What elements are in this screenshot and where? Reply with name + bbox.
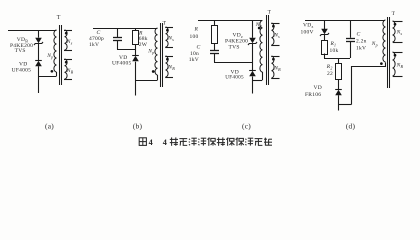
wire: (b) drain stub down <box>135 80 137 96</box>
capacitor C 4700p 1kV (b) <box>113 38 122 41</box>
caption glyph 钳 <box>217 137 225 145</box>
wire: (a) drain node to primary bottom <box>38 76 57 78</box>
transformer core (a) <box>60 25 62 85</box>
wire: (c) TVS to VD <box>252 44 254 71</box>
polarity dot (d) primary <box>380 62 383 65</box>
wire: (b) top rail <box>93 28 158 30</box>
diode VD UF4005 (b) <box>132 56 139 62</box>
resistor R1 10k (d) <box>322 41 328 55</box>
transformer T (a) primary winding N_p <box>54 30 57 72</box>
svg-text:22: 22 <box>327 71 333 77</box>
polarity dot N_s (c) <box>272 25 275 28</box>
caption glyph 位 <box>226 138 234 146</box>
diode VD UF4005 (c) <box>249 71 256 77</box>
svg-text:VD: VD <box>314 85 322 91</box>
svg-text:C: C <box>197 44 201 50</box>
wire: (d) R1 bottom stub <box>324 54 326 59</box>
polarity dot N_s (b) <box>166 29 169 32</box>
svg-text:(c): (c) <box>242 121 251 130</box>
wire: (b) N_s top lead <box>165 27 173 29</box>
svg-text:2W: 2W <box>139 42 148 48</box>
wire: (c) N_B top lead <box>271 56 279 58</box>
winding N_B (d) <box>393 52 396 76</box>
wire: (a) below VD to drain node <box>38 66 40 76</box>
wire: (b) primary bottom lead <box>157 75 159 80</box>
wire: (a) N_B top lead <box>64 59 72 61</box>
diode VD UF4005 (a) <box>35 61 42 67</box>
wire: (a) N_s top lead <box>64 30 72 32</box>
transformer T (b) primary winding N_p <box>155 28 158 75</box>
wire: (d) zener top stub <box>324 20 326 29</box>
wire: (c) R top stub <box>214 21 216 26</box>
wire: (b) R top stub <box>135 28 137 31</box>
caption glyph 极 <box>207 138 215 146</box>
winding N_B (c) <box>272 56 275 78</box>
caption glyph 护 <box>245 138 253 145</box>
caption glyph 路 <box>264 138 272 146</box>
TVS diode VD_B P4KE200 (a) <box>34 38 43 45</box>
wire: (b) N_s bottom lead <box>165 47 173 49</box>
wire: (d) N_s top lead <box>393 21 403 23</box>
wire: (d) cap bottom stub <box>350 41 352 58</box>
svg-text:100V: 100V <box>301 29 314 35</box>
svg-text:T: T <box>268 10 272 16</box>
TVS diode VD_z P4KE200 (c) <box>248 38 257 45</box>
svg-text:UF4005: UF4005 <box>12 67 32 73</box>
wire: (d) N_B top lead <box>393 52 403 54</box>
winding N_B (a) <box>65 59 68 79</box>
svg-text:(a): (a) <box>45 121 54 130</box>
winding N_s (c) <box>272 23 275 45</box>
Figure: four passive drain clamp protection circuits (scanned schematic) <box>0 0 420 155</box>
polarity dot N_B (b) <box>166 58 169 61</box>
caption glyph 无 <box>179 139 187 146</box>
wire: (a) N_B bottom lead <box>64 79 72 81</box>
wire: (b) cap to R node <box>117 49 135 51</box>
svg-text:R: R <box>194 27 199 33</box>
wire: (d) zener to R1 <box>324 35 326 40</box>
zener diode VD_z 100V (d) <box>320 29 329 36</box>
polarity dot N_B (d) <box>394 54 397 57</box>
wire: (d) N_B bottom lead <box>393 76 403 78</box>
wire: (b) R bottom to VD <box>135 45 137 56</box>
svg-text:C: C <box>357 32 361 38</box>
svg-text:T: T <box>163 21 167 27</box>
svg-text:T: T <box>392 11 396 17</box>
svg-text:T: T <box>57 15 61 21</box>
polarity dot (b) primary <box>152 70 155 73</box>
svg-text:UF4005: UF4005 <box>225 75 244 81</box>
svg-text:2.2n: 2.2n <box>356 39 367 45</box>
transformer core (b) <box>161 23 163 87</box>
winding N_B (b) <box>166 56 169 77</box>
wire: (d) R2 top stub <box>338 58 340 63</box>
wire: (a) N_s bottom lead <box>64 50 72 52</box>
caption glyph 漏 <box>198 138 206 145</box>
caption glyph 源 <box>189 138 197 145</box>
wire: (c) drain node to primary bottom <box>252 80 262 82</box>
wire: (a) top rail V+ to primary top <box>8 30 57 32</box>
svg-text:(d): (d) <box>346 121 356 130</box>
wire: (b) cap top stub <box>117 28 119 37</box>
resistor R2 22 (d) <box>336 64 342 80</box>
wire: (d) top rail <box>305 20 385 22</box>
wire: (d) primary bottom lead to drain node <box>352 63 386 105</box>
wire: (a) primary bottom lead <box>56 72 58 76</box>
resistor R 68k 2W (b) <box>133 31 139 45</box>
wire: (c) R to C stub <box>214 43 216 50</box>
polarity dot (a) primary <box>51 70 54 73</box>
svg-text:10k: 10k <box>330 48 339 54</box>
wire: (c) TVS top stub <box>252 21 254 38</box>
svg-text:UF4005: UF4005 <box>112 61 132 67</box>
wire: (c) N_B bottom lead <box>271 78 279 80</box>
polarity dot N_s (a) <box>65 32 68 35</box>
transformer core (c) <box>267 15 269 85</box>
polarity dot (c) primary <box>258 27 261 30</box>
wire: (a) clamp branch upper stub <box>38 30 40 38</box>
wire: (b) VD to drain node <box>135 62 137 80</box>
winding N_s (a) <box>65 30 68 50</box>
wire: (d) cap top stub <box>350 20 352 38</box>
wire: (a) between TVS and VD <box>38 43 40 60</box>
svg-text:TVS: TVS <box>229 44 240 50</box>
wire: (a) drain stub down <box>38 76 40 93</box>
wire: (c) RC to TVS mid node <box>214 62 252 64</box>
polarity dot N_s (d) <box>394 23 397 26</box>
diode VD FR106 (d) <box>335 90 342 96</box>
wire: (b) N_B bottom lead <box>165 77 173 79</box>
transformer T (d) primary winding N_p <box>383 20 386 62</box>
svg-text:TVS: TVS <box>15 48 26 54</box>
svg-text:4: 4 <box>149 138 153 147</box>
svg-text:1kV: 1kV <box>356 45 366 51</box>
winding N_s (b) <box>166 27 169 47</box>
wire: (d) drain node jog <box>338 104 352 106</box>
wire: (c) drain stub down <box>252 80 254 93</box>
wire: (c) N_s bottom lead <box>271 45 279 47</box>
svg-text:1kV: 1kV <box>89 42 99 48</box>
caption glyph 种 <box>170 137 178 145</box>
wire: (b) cap bottom stub <box>117 40 119 49</box>
svg-text:FR106: FR106 <box>305 92 321 98</box>
wire: (c) top rail <box>198 20 262 22</box>
wire: (d) clamp node rail <box>324 58 350 60</box>
wire: (c) primary bottom lead <box>262 72 264 80</box>
polarity dot N_B (a) <box>65 61 68 64</box>
transformer core (d) <box>388 17 390 88</box>
svg-text:100: 100 <box>190 34 199 40</box>
wire: (c) N_s top lead <box>271 23 279 25</box>
svg-text:(b): (b) <box>133 121 143 130</box>
winding N_s (d) <box>393 21 396 42</box>
wire: (b) N_B top lead <box>165 56 173 58</box>
svg-text:4: 4 <box>163 138 167 147</box>
caption glyph 保 <box>236 138 244 146</box>
caption glyph 图 <box>139 138 146 146</box>
caption glyph 电 <box>255 139 263 146</box>
polarity dot N_B (c) <box>272 58 275 61</box>
wire: (d) N_s bottom lead <box>393 42 403 44</box>
capacitor C 2.2n 1kV (d) <box>346 39 355 42</box>
wire: (d) R2 to VD <box>338 79 340 89</box>
wire: (b) drain node to primary bottom <box>135 80 158 82</box>
wire: (d) drain stub down <box>338 104 340 111</box>
resistor R 100 (c) <box>212 26 218 44</box>
svg-text:1kV: 1kV <box>189 57 199 63</box>
wire: (c) VD bottom stub <box>252 77 254 81</box>
capacitor C 10n 1kV (c) <box>210 51 219 54</box>
wire: (c) cap bottom stub <box>214 53 216 62</box>
transformer T (c) primary winding N_p <box>260 21 263 73</box>
wire: (d) VD bottom stub <box>338 95 340 104</box>
